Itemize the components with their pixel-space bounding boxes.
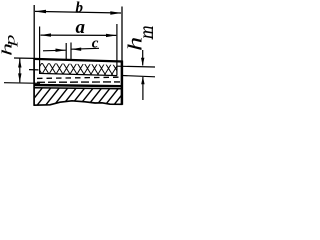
node a arrow left	[40, 33, 51, 36]
wire c tick left	[65, 43, 67, 60]
wire c tick right	[70, 43, 72, 61]
node hm arrow up	[141, 76, 144, 84]
node band bottom border	[40, 73, 118, 75]
wire stray mark right of hm	[151, 27, 153, 40]
node a arrow right	[106, 34, 117, 37]
wire c dimension line right part	[71, 47, 99, 50]
wire hp top extension line	[14, 57, 34, 59]
node c arrow pointing right	[56, 49, 67, 52]
node label hp (rotated)	[0, 43, 15, 56]
wire b dimension line	[35, 11, 121, 13]
svg-text:c: c	[92, 36, 99, 52]
wire hm bottom extension line	[122, 76, 155, 77]
node b arrow right	[110, 11, 121, 14]
node hm arrow down	[141, 58, 144, 66]
node block top surface edge	[34, 59, 123, 62]
node base metal hatching	[28, 87, 135, 106]
wire hm dimension line lower tail	[142, 77, 144, 100]
wire hp bottom extension line	[4, 82, 40, 85]
wire b extension line left	[33, 5, 35, 59]
node base top boundary second line	[34, 87, 122, 90]
wire a dimension line	[41, 34, 117, 36]
node deposit cross-hatch band	[34, 61, 120, 76]
node block left edge	[33, 59, 35, 106]
wire dash-dot line 1	[37, 77, 120, 78]
wire dash-dot line 2	[37, 81, 120, 83]
wire a extension line right	[116, 24, 118, 75]
wire hm dimension line upper tail	[142, 50, 144, 66]
node fusion line stub left	[29, 69, 39, 71]
wire b extension line right	[121, 7, 123, 62]
node block right edge	[121, 61, 124, 105]
node label hm (rotated)	[124, 37, 146, 51]
node block bottom edge	[34, 101, 123, 105]
node hp arrow down	[18, 73, 21, 82]
node b arrow left	[35, 10, 46, 13]
wire a extension line left	[39, 27, 41, 75]
node c arrow pointing left	[71, 48, 81, 51]
node base top thick boundary	[34, 85, 122, 86]
wire c dimension line left part	[43, 49, 66, 52]
svg-text:b: b	[76, 0, 84, 16]
node hp arrow up	[18, 59, 21, 68]
svg-text:a: a	[76, 17, 86, 38]
wire hm top extension line	[117, 65, 155, 68]
wire hp dimension line	[19, 59, 21, 83]
